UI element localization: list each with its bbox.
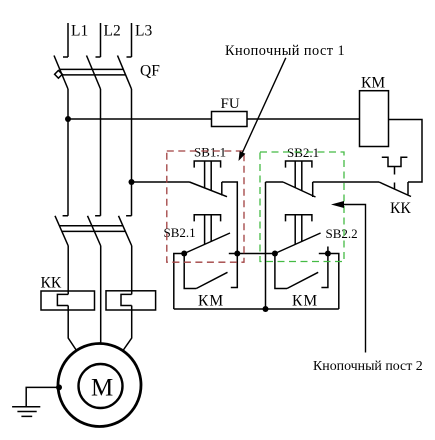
- push button SB1.1 actuator: [194, 161, 220, 190]
- thermal relay KK release element: [382, 157, 408, 166]
- annotation arrow to station 2: [331, 201, 366, 353]
- motor M outer circle: [58, 344, 141, 427]
- node junction L3 to control circuit: [129, 179, 135, 185]
- wire bottom bus: [174, 308, 339, 310]
- auxiliary contact KM station1 blade: [196, 272, 227, 288]
- wire stub left of station1 right node: [229, 253, 238, 255]
- wire SB1.1 output down: [222, 182, 238, 254]
- auxiliary contact KM station2 blade: [287, 272, 318, 288]
- svg-text:КК: КК: [41, 275, 62, 292]
- svg-text:SB2.2: SB2.2: [326, 226, 358, 241]
- circuit breaker QF linkage bars: [60, 69, 126, 75]
- wire FU branch left: [68, 118, 212, 120]
- node L2 phase input: [96, 23, 101, 57]
- node junction bus to station2 input: [263, 306, 269, 312]
- contactor KM main contact pole 1: [55, 216, 68, 246]
- wire station1 left node to bottom bus: [174, 254, 184, 310]
- push button SB2.1 actuator: [194, 215, 220, 245]
- push button SB1.1 fixed contact bar: [221, 182, 223, 196]
- thermal relay KK heater 2 box: [106, 291, 156, 310]
- svg-text:SB2.1: SB2.1: [164, 225, 196, 240]
- svg-text:L1: L1: [71, 23, 88, 40]
- svg-text:КМ: КМ: [361, 75, 385, 92]
- auxiliary contact KM station1 left lead: [184, 254, 196, 289]
- button station 1 boundary (red dashed): [167, 151, 244, 262]
- thermal relay KK contact blade: [379, 182, 411, 197]
- wire L3 vertical below KM contacts: [131, 246, 133, 294]
- contactor KM main contact pole 2: [88, 216, 101, 246]
- svg-text:QF: QF: [140, 63, 160, 80]
- node junction station1 right: [234, 251, 240, 257]
- wire L3 to SB1.1: [132, 181, 190, 183]
- svg-text:L2: L2: [104, 23, 121, 40]
- wire stub up station2 right node: [327, 247, 329, 254]
- svg-text:КК: КК: [390, 200, 411, 217]
- push button SB2.1 station2 actuator: [286, 161, 312, 191]
- wire node line station1 to station2: [237, 253, 275, 255]
- ground symbol: [12, 407, 40, 417]
- push button SB2.1 station2 fixed contact bar: [312, 182, 314, 197]
- annotation arrow to station 1: [239, 58, 286, 161]
- wire FU to KM coil: [247, 118, 360, 120]
- thermal relay KK contact fixed lead: [407, 182, 409, 195]
- wire motor to ground: [26, 387, 59, 406]
- auxiliary contact KM station1 right lead: [231, 254, 238, 288]
- push button SB1.1 blade: [190, 182, 228, 197]
- button station 2 boundary (green dashed): [260, 152, 344, 262]
- push button SB2.1 blade: [184, 233, 230, 254]
- thermal relay KK release stem (dashed): [394, 167, 396, 189]
- wire L1 vertical below QF: [67, 89, 69, 216]
- push button SB2.1 station2 blade: [283, 182, 316, 197]
- node junction L1 to FU: [65, 116, 71, 122]
- wire L2 vertical below KM contacts: [100, 246, 102, 344]
- wire station2 stop output to KK: [313, 181, 379, 183]
- push button SB2.2 actuator: [286, 215, 312, 245]
- wire L2 vertical below QF: [100, 89, 102, 216]
- contactor KM main contact pole 3: [119, 216, 132, 246]
- wire station2 stop input from bus: [265, 182, 267, 309]
- circuit breaker QF pole 2 blade: [87, 56, 101, 90]
- svg-text:М: М: [91, 375, 113, 402]
- svg-text:Кнопочный пост 2: Кнопочный пост 2: [313, 359, 423, 374]
- svg-text:L3: L3: [135, 23, 152, 40]
- svg-text:SB2.1: SB2.1: [287, 145, 319, 160]
- circuit breaker QF latch diamond: [55, 70, 63, 78]
- node L3 phase input: [127, 23, 132, 57]
- wire station2 right node to bus: [328, 254, 339, 310]
- svg-text:SB1.1: SB1.1: [194, 145, 226, 160]
- fuse FU: [212, 112, 248, 127]
- contactor coil KM: [360, 91, 389, 147]
- node junction station2 left: [272, 251, 278, 257]
- wire L1 vertical below KM contacts: [67, 246, 69, 294]
- contactor KM main contacts linkage bars: [59, 226, 125, 232]
- node L1 phase input: [63, 23, 68, 57]
- svg-text:КМ: КМ: [292, 293, 318, 310]
- thermal relay KK heater 2 element jog: [121, 294, 132, 305]
- node junction station2 right: [325, 251, 331, 257]
- node junction station1 left: [181, 251, 187, 257]
- wire stub left of station2 right node: [319, 253, 328, 255]
- auxiliary contact KM station2 left lead: [275, 254, 287, 289]
- circuit breaker QF pole 1 blade: [54, 56, 68, 90]
- svg-text:КМ: КМ: [198, 293, 224, 310]
- thermal relay KK heater 1 box: [41, 291, 95, 310]
- svg-text:FU: FU: [221, 96, 240, 112]
- wire L1 to motor: [68, 306, 76, 351]
- node motor ground junction: [56, 384, 62, 390]
- auxiliary contact KM station2 right lead: [321, 254, 328, 288]
- wire station2 stop input lead: [266, 181, 284, 183]
- circuit breaker QF pole 3 blade: [118, 56, 132, 90]
- motor M inner circle: [79, 364, 123, 408]
- thermal relay KK heater 1 element jog: [57, 294, 68, 305]
- push button SB2.2 blade: [275, 233, 321, 254]
- wire L3 vertical below QF: [131, 89, 133, 216]
- svg-text:Кнопочный пост 1: Кнопочный пост 1: [225, 43, 345, 59]
- wire L3 to motor: [123, 306, 132, 351]
- wire KM coil to right rail: [389, 120, 423, 183]
